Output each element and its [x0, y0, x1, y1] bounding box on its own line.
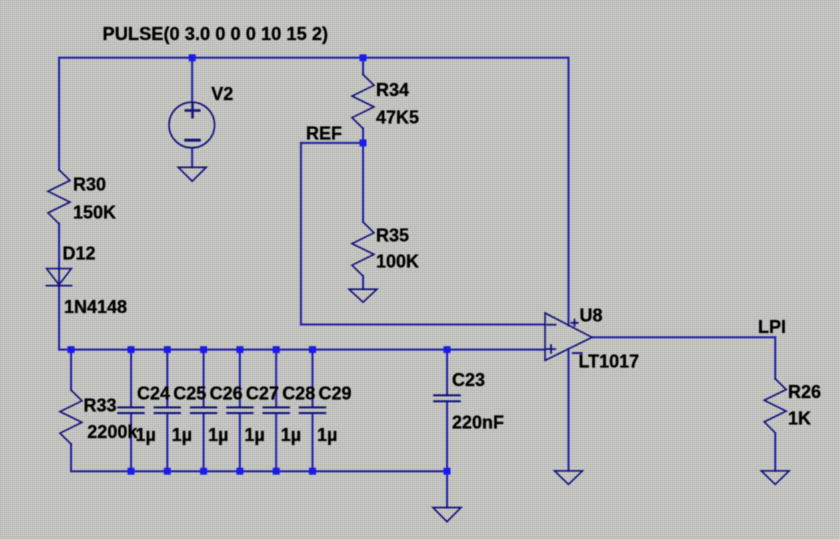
- diode D12: [47, 269, 72, 285]
- wire C28 leads: [275, 350, 277, 408]
- wire V2 top lead: [191, 58, 193, 103]
- svg-text:1µ: 1µ: [172, 425, 192, 445]
- wire REF horizontal top: [301, 142, 363, 144]
- ground under op-amp: [555, 471, 583, 485]
- wire main bus horizontal: [59, 349, 545, 351]
- capacitor C28 plates: [264, 407, 289, 413]
- wire op-amp output: [592, 336, 775, 338]
- node bus / C26: [200, 346, 207, 353]
- svg-text:C28: C28: [282, 384, 315, 404]
- wire R34 bottom lead: [362, 129, 364, 143]
- resistor R26: [764, 379, 786, 433]
- wire R26 bottom lead: [774, 434, 776, 471]
- svg-text:R33: R33: [84, 396, 117, 416]
- op-amp non-inverting input mark: [547, 345, 555, 353]
- ground under R26: [761, 471, 789, 485]
- wire bottom bus horizontal: [71, 470, 447, 472]
- wire C29 leads: [312, 350, 314, 408]
- svg-text:C25: C25: [173, 384, 206, 404]
- node bus / C29: [309, 346, 316, 353]
- svg-text:1µ: 1µ: [208, 425, 228, 445]
- node bottom bus / C24: [128, 468, 135, 475]
- wire C23 to ground: [446, 471, 448, 507]
- capacitor C23 plates: [434, 395, 460, 401]
- node top bus / R34: [360, 54, 367, 61]
- node top bus / V2: [189, 54, 196, 61]
- ground under R35: [349, 289, 377, 302]
- ground under C23: [433, 508, 461, 522]
- op-amp inverting input mark: [547, 324, 555, 326]
- wire C27 leads: [239, 350, 241, 408]
- svg-text:R30: R30: [73, 175, 106, 195]
- svg-text:REF: REF: [306, 124, 342, 144]
- wire R30 through D12 to bus: [58, 224, 60, 350]
- node bottom bus / C26: [200, 468, 207, 475]
- node bottom bus / C25: [164, 468, 171, 475]
- voltage source V2 circle: [169, 102, 215, 148]
- capacitor C25 plates: [155, 407, 180, 413]
- resistor R35: [352, 222, 374, 276]
- svg-text:1µ: 1µ: [136, 425, 156, 445]
- node bus / C25: [164, 346, 171, 353]
- svg-text:R34: R34: [376, 80, 409, 100]
- wire R34 top lead: [362, 58, 364, 75]
- wire REF to op-amp inverting input: [301, 324, 545, 326]
- svg-text:C24: C24: [137, 384, 170, 404]
- resistor R30: [48, 170, 70, 224]
- wire op-amp V- to ground: [568, 349, 570, 471]
- svg-text:1µ: 1µ: [244, 425, 264, 445]
- wire R26 top lead: [774, 337, 776, 378]
- wire R33 bottom lead: [70, 444, 72, 471]
- svg-text:D12: D12: [63, 244, 96, 264]
- wire R33 top lead: [70, 350, 72, 390]
- capacitor C24 plates: [118, 407, 143, 413]
- svg-text:1µ: 1µ: [317, 425, 337, 445]
- svg-text:U8: U8: [580, 306, 603, 326]
- svg-text:C27: C27: [246, 384, 279, 404]
- V2 plus sign: [186, 104, 200, 118]
- wire top horizontal: [59, 57, 569, 59]
- svg-text:220nF: 220nF: [452, 413, 504, 433]
- wire C24 leads: [130, 350, 132, 408]
- svg-text:47K5: 47K5: [376, 108, 419, 128]
- wire C26 leads: [203, 350, 205, 408]
- svg-text:150K: 150K: [73, 203, 116, 223]
- capacitor C27 plates: [227, 407, 252, 413]
- capacitor C29 plates: [300, 407, 325, 413]
- svg-text:R26: R26: [788, 382, 821, 402]
- svg-text:100K: 100K: [376, 252, 419, 272]
- svg-text:PULSE(0 3.0 0 0 0 10 15 2): PULSE(0 3.0 0 0 0 10 15 2): [103, 23, 329, 44]
- svg-text:1µ: 1µ: [281, 425, 301, 445]
- capacitor C26 plates: [191, 407, 216, 413]
- svg-text:2200k: 2200k: [87, 422, 138, 442]
- svg-text:R35: R35: [376, 226, 409, 246]
- op-amp V+ mark: [571, 320, 577, 326]
- V2 minus sign: [186, 139, 200, 142]
- wire R35 bottom lead: [362, 276, 364, 289]
- wire V2 bottom lead to ground: [191, 148, 193, 168]
- op-amp U8 triangle: [545, 313, 592, 361]
- svg-text:1N4148: 1N4148: [64, 297, 127, 317]
- node bus / R33: [68, 346, 75, 353]
- node bottom bus / C23: [444, 468, 451, 475]
- svg-text:V2: V2: [211, 84, 233, 104]
- node bus / C28: [273, 346, 280, 353]
- wire left vertical upper (to R30): [58, 58, 60, 170]
- svg-text:LPI: LPI: [758, 317, 786, 337]
- ground under V2: [178, 167, 206, 181]
- wire REF vertical: [300, 143, 302, 325]
- node bottom bus / C27: [236, 468, 243, 475]
- svg-text:1K: 1K: [788, 409, 811, 429]
- wire R35 top lead: [362, 143, 364, 222]
- node bus / C27: [236, 346, 243, 353]
- node bus / C24: [128, 346, 135, 353]
- svg-text:C29: C29: [319, 384, 352, 404]
- svg-text:LT1017: LT1017: [579, 352, 640, 372]
- wire C23 bottom lead: [446, 401, 448, 471]
- node bus / C23: [444, 346, 451, 353]
- node bottom bus / C29: [309, 468, 316, 475]
- op-amp V- mark: [573, 352, 582, 354]
- node bottom bus / C28: [273, 468, 280, 475]
- svg-text:C26: C26: [210, 384, 243, 404]
- resistor R33: [60, 390, 82, 444]
- node REF: [360, 139, 367, 146]
- resistor R34: [352, 75, 374, 129]
- svg-text:C23: C23: [452, 370, 485, 390]
- wire C25 leads: [166, 350, 168, 408]
- wire V+ supply vertical: [568, 58, 570, 326]
- wire C23 top lead: [446, 350, 448, 396]
